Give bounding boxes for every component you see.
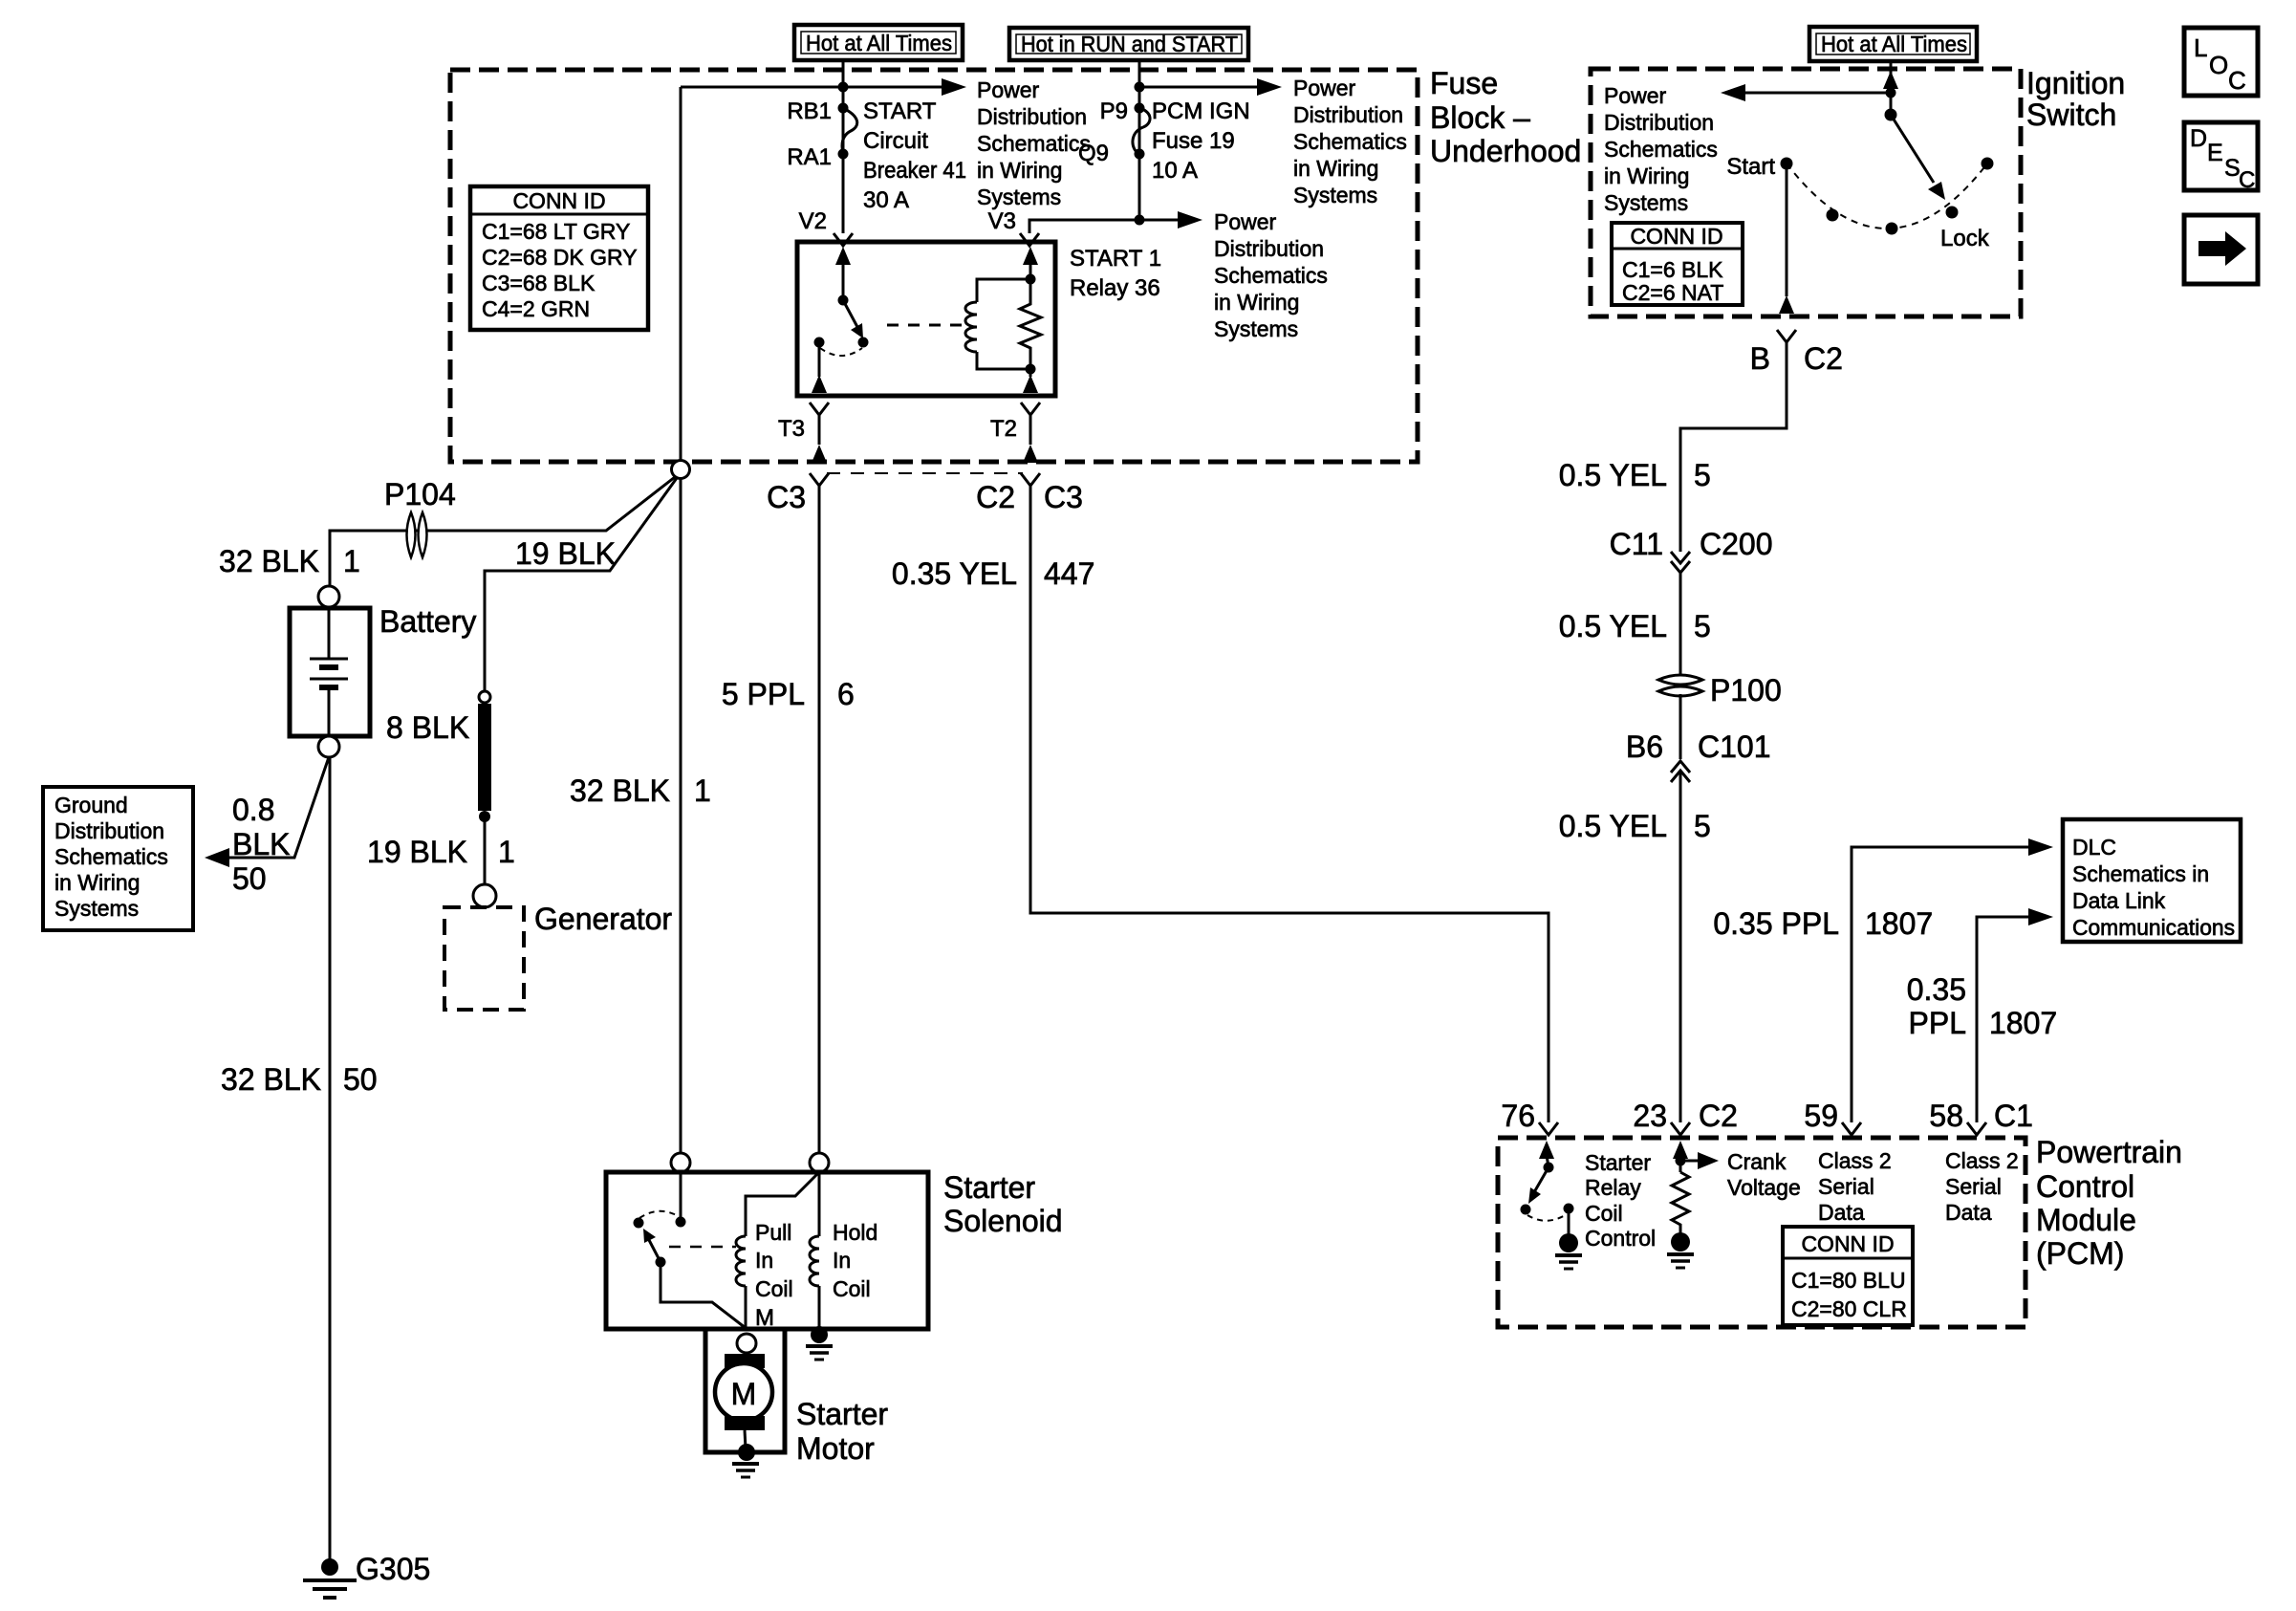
starter motor brush bottom	[725, 1416, 765, 1430]
svg-text:76: 76	[1501, 1099, 1535, 1133]
label 0.5 YEL 5 second	[1559, 609, 1711, 643]
connector C2/C3 at T2	[1021, 473, 1040, 486]
svg-text:Serial: Serial	[1818, 1174, 1874, 1199]
svg-text:Systems: Systems	[54, 896, 139, 921]
label Pull In Coil	[755, 1220, 793, 1301]
svg-text:Ground: Ground	[54, 793, 128, 817]
svg-text:Fuse: Fuse	[1430, 66, 1498, 100]
powertrain control module dashed box	[1498, 1138, 2025, 1327]
svg-text:P100: P100	[1710, 673, 1782, 708]
wire class 2 serial data 59 to DLC	[1852, 847, 2034, 1122]
svg-text:32 BLK: 32 BLK	[221, 1062, 321, 1097]
svg-text:D: D	[2190, 125, 2207, 152]
wire hot feed into ignition switch	[1890, 61, 1893, 115]
svg-text:Control: Control	[1585, 1226, 1656, 1251]
svg-text:5 PPL: 5 PPL	[722, 677, 805, 711]
svg-text:Starter: Starter	[1585, 1150, 1651, 1175]
svg-text:Serial: Serial	[1945, 1174, 2002, 1199]
wire T3 to fuse block edge	[818, 415, 821, 445]
svg-text:Solenoid: Solenoid	[943, 1204, 1063, 1238]
starter motor brush top	[725, 1354, 765, 1368]
starter motor box	[705, 1329, 785, 1452]
svg-text:0.5 YEL: 0.5 YEL	[1559, 809, 1667, 843]
svg-text:In: In	[833, 1248, 851, 1273]
relay 36 box	[797, 242, 1055, 396]
wire 5 PPL 6 from C3 down to solenoid	[818, 486, 821, 1153]
svg-text:Distribution: Distribution	[1214, 236, 1324, 261]
svg-text:Distribution: Distribution	[1604, 110, 1714, 135]
svg-text:START: START	[863, 98, 937, 124]
wire from Hot in RUN down to fuse 19	[1138, 60, 1141, 220]
circuit breaker 41 terminal RA1	[838, 149, 849, 160]
svg-text:RA1: RA1	[787, 144, 832, 170]
svg-text:P104: P104	[384, 477, 456, 512]
inline connector P100	[1658, 675, 1702, 696]
svg-text:447: 447	[1044, 556, 1094, 591]
svg-text:Power: Power	[977, 77, 1040, 102]
generator terminal	[473, 884, 496, 907]
wire 0.5 YEL 5 second	[1679, 573, 1682, 674]
svg-text:B6: B6	[1626, 729, 1663, 764]
relay mech dashed link	[887, 324, 964, 327]
svg-text:Schematics: Schematics	[1604, 137, 1718, 162]
svg-text:Starter: Starter	[943, 1170, 1035, 1205]
svg-text:C11: C11	[1610, 527, 1663, 561]
fusible link bottom node	[479, 811, 490, 822]
inline connector P104	[407, 512, 427, 557]
connector V2	[834, 233, 853, 246]
label START 1 Relay 36	[1070, 246, 1161, 301]
svg-text:Data: Data	[1945, 1200, 1992, 1225]
svg-text:6: 6	[837, 677, 855, 711]
battery positive terminal	[318, 586, 339, 607]
node junction at breaker feed	[838, 82, 849, 93]
svg-text:58: 58	[1929, 1099, 1963, 1133]
CONN ID table (pcm)	[1783, 1227, 1913, 1325]
svg-text:32 BLK: 32 BLK	[570, 773, 670, 808]
label Starter Solenoid	[943, 1170, 1063, 1238]
solenoid mech dashed link	[669, 1246, 736, 1249]
svg-text:in Wiring: in Wiring	[1604, 163, 1689, 188]
svg-text:Circuit: Circuit	[863, 128, 928, 154]
relay switch contact right	[858, 337, 869, 348]
svg-text:Data: Data	[1818, 1200, 1865, 1225]
svg-text:C2=6 NAT: C2=6 NAT	[1622, 280, 1723, 305]
svg-text:C200: C200	[1700, 527, 1773, 561]
svg-text:Fuse 19: Fuse 19	[1152, 128, 1235, 154]
wire 0.8 BLK 50 to ground distribution	[227, 757, 329, 858]
starter motor M circle	[715, 1363, 772, 1421]
svg-text:0.5 YEL: 0.5 YEL	[1559, 458, 1667, 492]
relay coil bumps	[965, 302, 977, 352]
hold-in coil ground wire	[818, 1286, 821, 1331]
fuse block - underhood dashed box	[450, 70, 1418, 462]
svg-text:59: 59	[1804, 1099, 1838, 1133]
arrow into ground distribution note	[205, 848, 229, 867]
svg-text:Power: Power	[1604, 83, 1667, 108]
DESC reference box	[2184, 122, 2258, 193]
LOC reference box	[2184, 28, 2258, 96]
next-page arrow box	[2184, 215, 2258, 284]
svg-text:Hold: Hold	[833, 1220, 877, 1245]
svg-text:Generator: Generator	[534, 902, 672, 936]
wire horizontal to Power Distribution arrow 3	[1139, 219, 1184, 222]
svg-text:Schematics: Schematics	[977, 131, 1091, 156]
starter motor ground wire	[745, 1430, 746, 1448]
pcm switch contact right	[1564, 1204, 1574, 1214]
hold-in coil	[810, 1236, 819, 1286]
svg-text:Schematics: Schematics	[1293, 129, 1407, 154]
connector row C3-C2 thin dashed line	[827, 472, 1023, 474]
wire horizontal feed to Power Distribution arrow	[681, 86, 948, 89]
solenoid switch contact left	[634, 1218, 644, 1229]
connector C11 C200 double chevron	[1671, 552, 1690, 573]
svg-text:C3: C3	[767, 480, 806, 514]
svg-text:1: 1	[343, 544, 360, 578]
svg-text:Breaker 41: Breaker 41	[863, 158, 966, 184]
circuit breaker 41 terminal RB1	[838, 103, 849, 114]
fuse 19 terminal P9	[1135, 103, 1145, 114]
ignition switch Start contact	[1781, 158, 1793, 170]
fuse 19 terminal Q9	[1135, 149, 1145, 160]
label 32 BLK 1 main	[570, 773, 711, 808]
pcm resistor	[1672, 1172, 1689, 1235]
svg-text:0.8: 0.8	[232, 793, 274, 827]
fusible link bar	[478, 704, 491, 811]
svg-text:0.5 YEL: 0.5 YEL	[1559, 609, 1667, 643]
label Powertrain Control Module (PCM)	[2036, 1135, 2182, 1271]
svg-text:Hot in RUN and START: Hot in RUN and START	[1021, 32, 1238, 56]
generator dashed box	[444, 907, 524, 1010]
svg-text:Block –: Block –	[1430, 100, 1530, 135]
relay switch arm	[843, 300, 857, 327]
svg-text:Class 2: Class 2	[1945, 1148, 2019, 1173]
connector B C2	[1777, 330, 1796, 342]
ignition switch dashed box	[1591, 69, 2021, 316]
svg-text:1: 1	[694, 773, 711, 808]
svg-text:1807: 1807	[1865, 906, 1933, 941]
relay switch dashed arc	[820, 348, 862, 356]
pull-in coil wire to M terminal	[745, 1286, 747, 1328]
relay switch contact left	[814, 337, 825, 348]
label Class 2 Serial Data 2	[1945, 1148, 2019, 1225]
detent dot 1	[1827, 209, 1839, 222]
pull-in coil	[736, 1236, 746, 1286]
svg-text:0.35 PPL: 0.35 PPL	[1713, 906, 1839, 941]
svg-text:Schematics: Schematics	[54, 844, 168, 869]
svg-text:START 1: START 1	[1070, 246, 1161, 272]
svg-text:Motor: Motor	[796, 1431, 875, 1466]
svg-text:Schematics: Schematics	[1214, 263, 1328, 288]
svg-text:(PCM): (PCM)	[2036, 1236, 2124, 1271]
svg-text:C1: C1	[1994, 1099, 2033, 1133]
svg-text:Distribution: Distribution	[977, 104, 1087, 129]
svg-text:C: C	[2239, 167, 2255, 193]
svg-text:PCM IGN: PCM IGN	[1152, 98, 1250, 124]
svg-text:0.35 YEL: 0.35 YEL	[892, 556, 1017, 591]
relay coil loop wire	[977, 279, 1030, 302]
pcm switch arm	[1534, 1167, 1549, 1192]
label 0.35 PPL 1807 vertical	[1907, 972, 2057, 1040]
connector V3	[1020, 233, 1039, 246]
svg-text:DLC: DLC	[2072, 835, 2116, 860]
svg-text:5: 5	[1694, 609, 1711, 643]
node junction below fuse 19	[1135, 215, 1145, 226]
detent dot right end	[1982, 158, 1994, 170]
wire 19 BLK from junction to fusible link	[485, 478, 677, 691]
starter motor ground	[732, 1444, 759, 1477]
svg-text:50: 50	[232, 861, 267, 896]
fuse 19 S-curve	[1133, 108, 1150, 154]
svg-text:Module: Module	[2036, 1203, 2136, 1237]
wire 32 BLK 50 to ground	[329, 757, 332, 1559]
svg-text:Q9: Q9	[1078, 141, 1109, 166]
svg-text:Pull: Pull	[755, 1220, 791, 1245]
note Power Distribution Schematics in Wiring Systems 2	[1293, 76, 1407, 207]
connector pin 58	[1967, 1122, 1986, 1135]
svg-text:32 BLK: 32 BLK	[219, 544, 319, 578]
solenoid switch output wire to M	[661, 1262, 746, 1328]
relay coil feed arrow up	[1029, 263, 1032, 279]
relay coil top node	[1026, 274, 1036, 285]
svg-text:in Wiring: in Wiring	[1214, 290, 1299, 315]
ignition switch arm	[1891, 115, 1934, 183]
svg-text:Class 2: Class 2	[1818, 1148, 1892, 1173]
svg-text:Coil: Coil	[833, 1276, 871, 1301]
ignition switch Lock contact	[1946, 207, 1959, 219]
note Power Distribution Schematics in Wiring Systems 1	[977, 77, 1091, 209]
wire from Start contact down to C2 pin B	[1786, 163, 1788, 296]
solenoid switch dashed arc	[639, 1211, 680, 1218]
svg-text:C: C	[2228, 66, 2246, 95]
svg-text:C101: C101	[1698, 729, 1771, 764]
wire to power distribution arrow left	[1739, 92, 1891, 95]
Hot at All Times box (ignition)	[1809, 27, 1977, 61]
fusible link top circle	[479, 691, 490, 703]
wire 0.5 YEL 5 from ignition B C2	[1680, 342, 1787, 552]
connector pin 23	[1671, 1122, 1690, 1135]
svg-text:C2=68 DK GRY: C2=68 DK GRY	[482, 245, 638, 270]
pcm switch ground wire	[1568, 1208, 1570, 1237]
wire 0.5 YEL 5 third	[1679, 773, 1682, 1122]
svg-text:CONN ID: CONN ID	[512, 188, 605, 213]
svg-text:G305: G305	[356, 1552, 430, 1586]
connector pin 76	[1539, 1122, 1558, 1135]
battery box	[290, 608, 370, 736]
svg-text:Ignition: Ignition	[2026, 66, 2125, 100]
svg-text:CONN ID: CONN ID	[1630, 224, 1722, 249]
label 0.5 YEL 5 first	[1559, 458, 1711, 492]
ground G305	[303, 1558, 357, 1598]
crank voltage arrow right	[1680, 1160, 1701, 1163]
wire 32 BLK battery feed diagonal	[330, 477, 675, 586]
solenoid switch pivot	[656, 1257, 666, 1268]
svg-text:T2: T2	[990, 416, 1017, 442]
starter motor terminal circle	[737, 1334, 756, 1353]
pcm switch contact left	[1521, 1205, 1531, 1215]
svg-text:Communications: Communications	[2072, 915, 2235, 940]
wire from Hot at All Times down to circuit breaker	[842, 60, 845, 233]
svg-text:In: In	[755, 1248, 773, 1273]
svg-text:23: 23	[1633, 1099, 1667, 1133]
label 0.5 YEL 5 third	[1559, 809, 1711, 843]
svg-text:Powertrain: Powertrain	[2036, 1135, 2182, 1169]
svg-text:Hot at All Times: Hot at All Times	[806, 31, 952, 55]
CONN ID table (ignition)	[1612, 223, 1743, 305]
wire horizontal to Power Distribution arrow 2	[1139, 86, 1264, 89]
label 0.35 YEL 447	[892, 556, 1094, 591]
relay resistor	[1020, 279, 1041, 369]
hold-in coil feed wire	[818, 1172, 821, 1236]
label Hold In Coil	[833, 1220, 877, 1301]
svg-text:Relay 36: Relay 36	[1070, 275, 1160, 301]
pull-in coil feed wire	[746, 1174, 817, 1236]
pcm starter relay switch arrow up	[1547, 1155, 1549, 1167]
relay coil bottom node	[1026, 364, 1036, 375]
solenoid internal ground	[806, 1326, 833, 1360]
solenoid switch feed wire	[680, 1172, 682, 1222]
circuit breaker 41 curve	[842, 108, 857, 154]
svg-text:C2: C2	[1804, 341, 1843, 376]
wire 0.5 YEL to C101	[1679, 694, 1682, 759]
label 32 BLK 50	[221, 1062, 378, 1097]
svg-text:C2: C2	[976, 480, 1015, 514]
solenoid switch arm with arrow	[649, 1240, 661, 1262]
battery negative terminal	[318, 736, 339, 757]
wire class 2 serial data 58 to DLC	[1977, 917, 2034, 1122]
pcm crank voltage arrow up	[1679, 1155, 1682, 1172]
CONN ID table (fuse block)	[470, 186, 648, 330]
crank voltage junction	[1676, 1156, 1686, 1166]
svg-text:1: 1	[498, 835, 515, 869]
svg-text:5: 5	[1694, 809, 1711, 843]
label 5 PPL 6	[722, 677, 855, 711]
ignition switch detent arc dashed	[1787, 163, 1987, 229]
svg-text:O: O	[2209, 51, 2228, 79]
arrow to power distribution 2	[1257, 78, 1282, 96]
svg-text:C1=68 LT GRY: C1=68 LT GRY	[482, 219, 630, 244]
svg-text:50: 50	[343, 1062, 378, 1097]
node feed junction	[1886, 88, 1896, 98]
svg-text:Battery: Battery	[379, 604, 476, 639]
svg-text:Control: Control	[2036, 1169, 2134, 1204]
svg-text:Start: Start	[1726, 154, 1775, 180]
svg-text:Systems: Systems	[1214, 316, 1298, 341]
connector T3 below relay	[810, 403, 829, 415]
connector C3 at T3	[810, 473, 829, 486]
pcm switch pivot	[1544, 1163, 1554, 1173]
label Ignition Switch	[2026, 66, 2125, 132]
svg-text:19 BLK: 19 BLK	[515, 536, 616, 571]
svg-text:Power: Power	[1214, 209, 1277, 234]
solenoid terminal S (left)	[671, 1153, 690, 1172]
label PCM IGN Fuse 19 10 A	[1152, 98, 1250, 184]
label 0.8 BLK 50	[232, 793, 290, 896]
svg-text:Distribution: Distribution	[54, 818, 164, 843]
svg-text:C2=80 CLR: C2=80 CLR	[1791, 1296, 1907, 1321]
label 19 BLK 1	[367, 835, 515, 869]
svg-text:Power: Power	[1293, 76, 1356, 100]
svg-text:19 BLK: 19 BLK	[367, 835, 467, 869]
svg-text:M: M	[731, 1377, 757, 1411]
note Power Distribution Schematics in Wiring Systems 3	[1214, 209, 1328, 341]
svg-text:L: L	[2194, 33, 2207, 62]
svg-text:V3: V3	[988, 208, 1016, 234]
svg-text:Lock: Lock	[1940, 226, 1990, 251]
svg-text:Schematics in: Schematics in	[2072, 861, 2209, 886]
svg-text:Systems: Systems	[1604, 190, 1688, 215]
wire 0.35 YEL 447 from C3 to PCM pin 76	[1030, 486, 1549, 1122]
connector T2 below relay	[1021, 403, 1040, 415]
svg-text:30 A: 30 A	[863, 187, 909, 213]
svg-text:RB1: RB1	[787, 98, 832, 124]
label Starter Motor	[796, 1397, 888, 1466]
svg-text:1807: 1807	[1989, 1006, 2057, 1040]
svg-text:C4=2 GRN: C4=2 GRN	[482, 296, 590, 321]
wire 32 BLK 1 main vertical	[680, 87, 682, 461]
detent dot bottom	[1886, 223, 1898, 235]
label 0.35 PPL 1807 horizontal	[1713, 906, 1933, 941]
svg-text:T3: T3	[778, 416, 805, 442]
label Starter Relay Coil Control	[1585, 1150, 1656, 1251]
svg-text:Hot at All Times: Hot at All Times	[1821, 32, 1967, 56]
label Class 2 Serial Data 1	[1818, 1148, 1892, 1225]
svg-text:in Wiring: in Wiring	[1293, 156, 1378, 181]
svg-text:BLK: BLK	[232, 827, 290, 861]
svg-text:Data Link: Data Link	[2072, 888, 2166, 913]
pcm resistor ground	[1667, 1232, 1694, 1268]
svg-text:PPL: PPL	[1909, 1006, 1966, 1040]
label Fuse Block - Underhood	[1430, 66, 1581, 168]
svg-text:E: E	[2207, 140, 2223, 166]
connector B6 C101 double chevron up	[1671, 761, 1690, 782]
Hot at All Times box (fuse block)	[794, 25, 963, 60]
pcm switch dashed arc	[1527, 1214, 1567, 1221]
svg-text:C2: C2	[1699, 1099, 1738, 1133]
svg-text:in Wiring: in Wiring	[54, 870, 140, 895]
svg-text:B: B	[1750, 341, 1770, 376]
svg-text:C3: C3	[1044, 480, 1083, 514]
solenoid switch contact right	[676, 1217, 686, 1228]
svg-text:Systems: Systems	[1293, 183, 1377, 207]
svg-text:5: 5	[1694, 458, 1711, 492]
svg-text:8 BLK: 8 BLK	[386, 710, 469, 745]
svg-text:Systems: Systems	[977, 185, 1061, 209]
svg-text:CONN ID: CONN ID	[1801, 1231, 1894, 1256]
starter solenoid box	[606, 1172, 928, 1329]
svg-text:Distribution: Distribution	[1293, 102, 1403, 127]
svg-text:0.35: 0.35	[1907, 972, 1966, 1007]
svg-text:V2: V2	[799, 208, 827, 234]
note Ground Distribution Schematics in Wiring Systems box	[43, 787, 193, 930]
label START Circuit Breaker 41 30 A	[863, 98, 966, 213]
wire from fuse junction to V3	[1029, 220, 1139, 233]
solenoid terminal (right)	[810, 1153, 829, 1172]
svg-text:C1=6 BLK: C1=6 BLK	[1622, 257, 1723, 282]
label 32 BLK 1 battery	[219, 544, 360, 578]
relay switch feed arrow up	[842, 263, 845, 300]
svg-text:C3=68 BLK: C3=68 BLK	[482, 271, 596, 295]
svg-text:in Wiring: in Wiring	[977, 158, 1062, 183]
node main junction circle below fuse block	[672, 461, 690, 479]
arrow to power distribution 1	[942, 78, 966, 96]
svg-text:Underhood: Underhood	[1430, 134, 1581, 168]
svg-text:Relay: Relay	[1585, 1175, 1641, 1200]
svg-text:Voltage: Voltage	[1727, 1175, 1801, 1200]
svg-text:Crank: Crank	[1727, 1149, 1787, 1174]
svg-text:Coil: Coil	[755, 1276, 793, 1301]
wire 19 BLK 1 to generator	[484, 816, 487, 884]
